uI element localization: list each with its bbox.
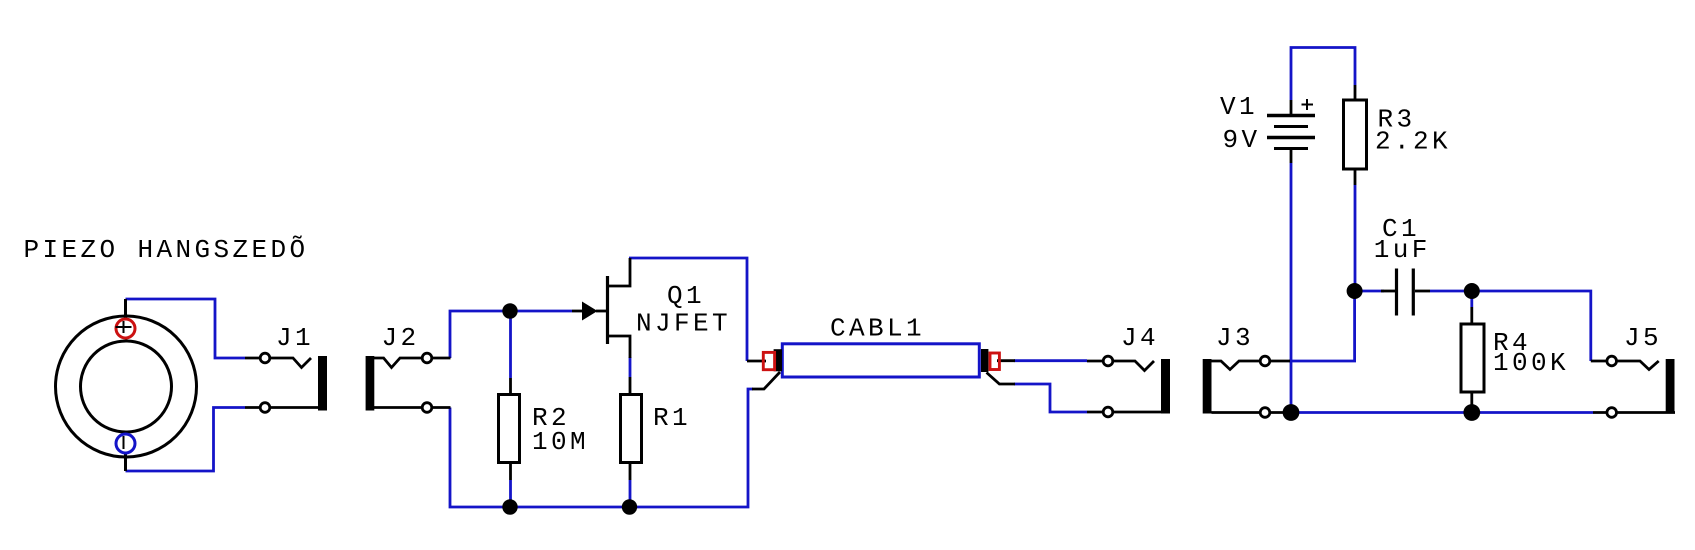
svg-text:J2: J2 bbox=[382, 323, 420, 353]
svg-text:Q1: Q1 bbox=[667, 281, 705, 311]
svg-text:9V: 9V bbox=[1223, 125, 1261, 155]
svg-text:2.2K: 2.2K bbox=[1375, 127, 1451, 157]
svg-text:R1: R1 bbox=[653, 403, 691, 433]
svg-text:V1: V1 bbox=[1220, 92, 1258, 122]
svg-text:10M: 10M bbox=[532, 427, 589, 457]
svg-text:J3: J3 bbox=[1216, 323, 1254, 353]
svg-text:1uF: 1uF bbox=[1374, 235, 1431, 265]
svg-text:CABL1: CABL1 bbox=[830, 314, 925, 344]
svg-text:PIEZO HANGSZEDÕ: PIEZO HANGSZEDÕ bbox=[24, 235, 309, 265]
svg-text:J4: J4 bbox=[1121, 323, 1159, 353]
svg-text:NJFET: NJFET bbox=[636, 309, 731, 339]
svg-text:J1: J1 bbox=[276, 323, 314, 353]
svg-text:100K: 100K bbox=[1493, 348, 1569, 378]
svg-text:J5: J5 bbox=[1624, 323, 1662, 353]
